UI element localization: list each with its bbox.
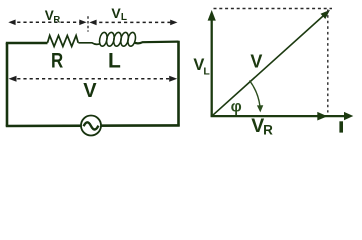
wire top right segment: [135, 42, 179, 44]
wire left edge: [6, 43, 9, 127]
svg-text:L: L: [121, 12, 127, 23]
ac source G1: [81, 116, 101, 136]
svg-text:L: L: [108, 50, 121, 73]
inductor L coil: [98, 32, 136, 47]
wire between R and L: [78, 43, 100, 45]
angle arc phi: [250, 81, 264, 113]
phasor vertical axis VL: [208, 10, 216, 117]
svg-text:R: R: [53, 14, 60, 25]
tick divider between VR and VL arrows: [87, 16, 89, 31]
dashed projection horizontal top: [214, 8, 333, 10]
phasor V vector: [212, 10, 330, 116]
svg-text:L: L: [203, 66, 210, 78]
dimension arrow VR (dashed): [8, 20, 86, 26]
wire top left segment: [6, 42, 48, 44]
svg-text:R: R: [51, 50, 63, 73]
svg-text:R: R: [263, 122, 273, 137]
wire right edge: [177, 41, 180, 127]
svg-text:V: V: [83, 80, 97, 102]
resistor R: [48, 36, 79, 47]
dashed projection vertical right: [327, 10, 329, 113]
label I axis: [339, 121, 343, 132]
dimension arrow VL (dashed): [89, 20, 177, 26]
dimension arrow V (dashed): [9, 76, 178, 82]
wire bottom: [6, 124, 180, 127]
svg-text:V: V: [111, 5, 121, 21]
svg-text:V: V: [250, 52, 262, 72]
svg-text:V: V: [45, 8, 54, 23]
svg-text:φ: φ: [231, 99, 242, 116]
phasor horizontal axis I: [211, 112, 354, 121]
